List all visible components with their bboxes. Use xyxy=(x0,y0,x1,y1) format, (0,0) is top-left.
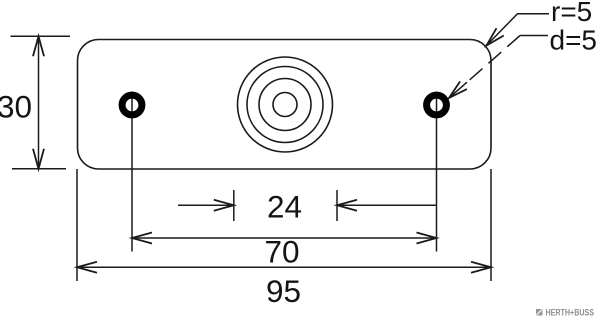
dimension 70 arrow left xyxy=(132,233,152,244)
dimension 95 extension line left xyxy=(76,169,78,281)
dimension 70 arrow right xyxy=(417,233,437,244)
svg-text:30: 30 xyxy=(0,89,32,125)
dimension 30 extension line bottom xyxy=(12,168,66,170)
svg-text:70: 70 xyxy=(264,234,299,270)
extension line right hole center xyxy=(436,92,438,252)
dimension 30 extension line top xyxy=(11,35,71,37)
dimension 95 extension line right xyxy=(490,169,492,281)
leader line d=5 solid shaft xyxy=(449,82,467,98)
dimension 95 arrow left xyxy=(77,262,97,273)
dimension 30 line xyxy=(38,36,40,169)
dimension 30 arrow up xyxy=(33,36,44,56)
leader line d=5 horizontal xyxy=(520,35,548,37)
dimension 24 arrow right pointing left xyxy=(337,200,357,211)
lens circles xyxy=(238,57,333,152)
svg-text:d=5: d=5 xyxy=(550,25,598,56)
svg-text:HERTH+BUSS: HERTH+BUSS xyxy=(546,308,595,318)
extension line left hole center xyxy=(131,92,133,252)
svg-text:r=5: r=5 xyxy=(551,0,592,27)
dimension 24 arrow left pointing right xyxy=(214,200,234,211)
lamp body outline xyxy=(78,40,492,170)
logo mark xyxy=(536,309,543,316)
svg-text:24: 24 xyxy=(267,189,302,225)
dimension 24 tail right xyxy=(337,204,437,206)
svg-text:95: 95 xyxy=(266,273,301,309)
leader line d=5 dashed diagonal xyxy=(467,36,520,83)
mounting hole left xyxy=(122,95,142,115)
leader line r=5 xyxy=(487,14,550,46)
dimension 95 line xyxy=(77,266,491,268)
dimension 24 extension line right xyxy=(336,190,338,221)
dimension 24 tail left xyxy=(178,204,234,206)
dimension 95 arrow right xyxy=(471,262,491,273)
leader arrow d=5 xyxy=(449,81,467,98)
leader arrow r=5 xyxy=(487,28,504,45)
mounting hole right xyxy=(427,95,447,115)
dimension 30 arrow down xyxy=(33,149,44,169)
dimension 24 extension line left xyxy=(233,190,235,221)
dimension 70 line xyxy=(132,237,437,239)
